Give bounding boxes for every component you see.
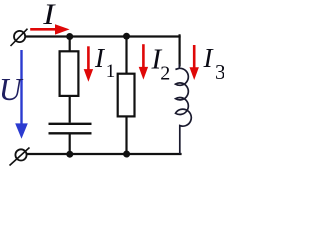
- terminal bottom-left: [10, 148, 30, 166]
- junction dot top R2: [123, 33, 130, 40]
- current arrow I (red, top): [30, 24, 69, 34]
- resistor R2: [118, 74, 135, 117]
- terminal top-left: [11, 29, 28, 46]
- wire right vertical (top corner to inductor): [180, 35, 181, 66]
- svg-text:2: 2: [160, 62, 170, 84]
- current arrow I2 (red): [139, 44, 148, 79]
- current arrow I1 (red): [84, 46, 93, 82]
- svg-text:I: I: [42, 0, 56, 31]
- label I2: [151, 43, 171, 84]
- wire top horizontal: [26, 35, 181, 37]
- svg-text:3: 3: [215, 60, 224, 84]
- label I3: [203, 43, 226, 84]
- wire R2 to bottom node: [125, 116, 127, 154]
- label I1: [94, 43, 115, 82]
- capacitor C1: [49, 124, 92, 134]
- voltage arrow U (blue): [15, 50, 28, 139]
- wire branch1 top (node to R1): [69, 37, 71, 52]
- current arrow I3 (red): [190, 45, 199, 80]
- svg-text:U: U: [0, 72, 24, 107]
- wire bottom horizontal: [27, 153, 182, 155]
- wire R1 to C1: [69, 96, 71, 123]
- inductor L1: [176, 64, 192, 154]
- wire C1 to bottom node: [69, 135, 71, 155]
- junction dot top R1: [66, 33, 73, 40]
- wire branch2 top (node to R2): [125, 37, 127, 75]
- svg-text:1: 1: [106, 61, 116, 82]
- junction dot bottom C1: [66, 151, 73, 158]
- junction dot bottom R2: [123, 151, 130, 158]
- resistor R1: [60, 51, 79, 96]
